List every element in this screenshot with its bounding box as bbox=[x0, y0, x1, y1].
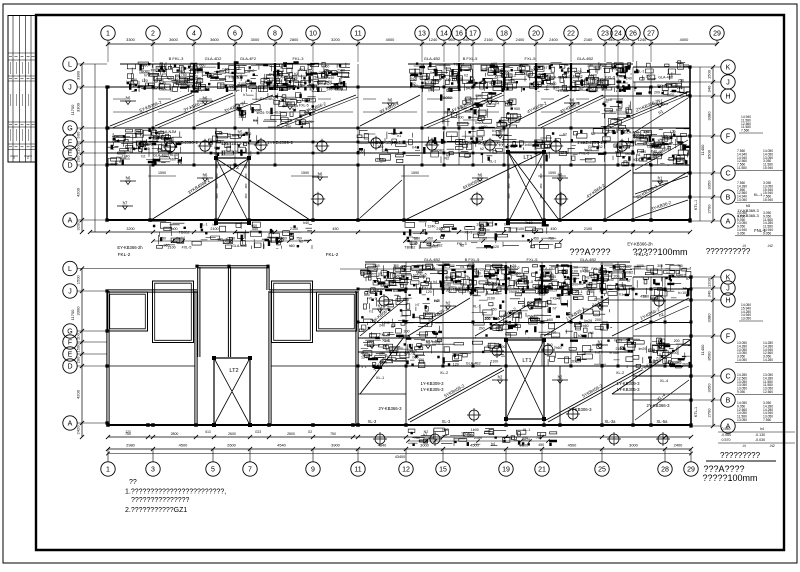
svg-text:1.????????????????????????,: 1.????????????????????????, bbox=[125, 489, 226, 496]
svg-text:2Y-KB366-3: 2Y-KB366-3 bbox=[378, 406, 402, 411]
svg-text:XL-4: XL-4 bbox=[660, 378, 669, 383]
svg-text:750: 750 bbox=[330, 432, 336, 436]
svg-text:XL-3: XL-3 bbox=[442, 419, 451, 424]
svg-text:N2: N2 bbox=[424, 430, 429, 434]
svg-text:h1: h1 bbox=[658, 176, 663, 181]
svg-text:KL-1: KL-1 bbox=[754, 192, 763, 197]
svg-text:b60: b60 bbox=[583, 324, 589, 328]
svg-text:D: D bbox=[67, 163, 72, 170]
svg-text:XL-1: XL-1 bbox=[382, 339, 390, 343]
svg-text:LT2: LT2 bbox=[229, 368, 238, 374]
svg-text:1Y-KB305-3: 1Y-KB305-3 bbox=[420, 387, 444, 392]
svg-text:h2: h2 bbox=[480, 147, 484, 151]
svg-text:9.050: 9.050 bbox=[737, 390, 745, 394]
svg-text:h2: h2 bbox=[464, 73, 468, 77]
svg-text:123: 123 bbox=[125, 430, 131, 434]
svg-text:-N2: -N2 bbox=[769, 444, 774, 448]
svg-text:19: 19 bbox=[502, 467, 510, 474]
svg-text:h6: h6 bbox=[203, 173, 208, 178]
svg-text:17: 17 bbox=[469, 31, 477, 38]
svg-text:1000: 1000 bbox=[372, 264, 380, 268]
svg-text:4200: 4200 bbox=[76, 187, 81, 197]
svg-text:1590: 1590 bbox=[158, 171, 166, 175]
svg-text:340: 340 bbox=[707, 290, 712, 297]
svg-text:240: 240 bbox=[326, 88, 332, 92]
svg-text:B: B bbox=[726, 195, 731, 202]
svg-text:4B0: 4B0 bbox=[539, 163, 543, 168]
svg-text:8500: 8500 bbox=[707, 351, 712, 361]
svg-text:2: 2 bbox=[151, 31, 155, 38]
svg-text:FXL-5: FXL-5 bbox=[525, 56, 537, 61]
svg-text:h4: h4 bbox=[760, 427, 764, 431]
svg-text:3200: 3200 bbox=[331, 37, 340, 42]
svg-text:GLA-4B2: GLA-4B2 bbox=[266, 110, 281, 114]
svg-text:h4: h4 bbox=[495, 102, 499, 106]
svg-text:h2: h2 bbox=[426, 340, 431, 345]
svg-text:G: G bbox=[67, 126, 72, 133]
svg-text:1: 1 bbox=[106, 31, 110, 38]
svg-text:2160: 2160 bbox=[584, 37, 593, 42]
svg-text:h29: h29 bbox=[223, 241, 229, 245]
svg-text:15: 15 bbox=[439, 467, 447, 474]
svg-text:900: 900 bbox=[572, 283, 578, 287]
svg-text:120: 120 bbox=[142, 79, 148, 83]
svg-text:GLA-4B2: GLA-4B2 bbox=[577, 56, 594, 61]
svg-text:L: L bbox=[68, 62, 72, 69]
svg-text:F: F bbox=[726, 334, 730, 341]
svg-text:E: E bbox=[68, 352, 73, 359]
svg-text:-N2: -N2 bbox=[767, 244, 773, 248]
svg-text:B: B bbox=[726, 398, 731, 405]
svg-text:1x60: 1x60 bbox=[443, 283, 451, 287]
svg-text:???????????????: ??????????????? bbox=[131, 497, 190, 504]
svg-text:2400: 2400 bbox=[549, 37, 558, 42]
svg-text:lm29: lm29 bbox=[257, 111, 265, 115]
svg-text:200: 200 bbox=[674, 339, 680, 343]
svg-text:1500: 1500 bbox=[76, 343, 81, 353]
svg-text:D: D bbox=[67, 364, 72, 371]
svg-text:3600: 3600 bbox=[210, 37, 219, 42]
svg-text:7b60: 7b60 bbox=[474, 121, 482, 125]
svg-text:3300: 3300 bbox=[76, 306, 81, 316]
svg-text:GLA-4B2: GLA-4B2 bbox=[424, 56, 441, 61]
svg-text:h7: h7 bbox=[123, 201, 128, 206]
svg-text:900: 900 bbox=[633, 158, 639, 162]
svg-text:29: 29 bbox=[687, 467, 695, 474]
svg-text:3200: 3200 bbox=[76, 221, 81, 231]
svg-text:3300: 3300 bbox=[76, 102, 81, 112]
svg-text:200: 200 bbox=[613, 274, 619, 278]
svg-text:15.940: 15.940 bbox=[763, 166, 773, 170]
svg-text:XL-2: XL-2 bbox=[616, 370, 624, 375]
svg-text:4500: 4500 bbox=[179, 443, 188, 448]
svg-text:3000: 3000 bbox=[629, 443, 638, 448]
svg-text:1590: 1590 bbox=[411, 171, 419, 175]
svg-text:2700: 2700 bbox=[707, 408, 712, 418]
svg-text:29: 29 bbox=[713, 31, 721, 38]
svg-text:200: 200 bbox=[654, 91, 660, 95]
svg-text:h6: h6 bbox=[478, 173, 483, 178]
svg-text:1500: 1500 bbox=[707, 69, 712, 79]
svg-text:2.???????????GZ1: 2.???????????GZ1 bbox=[125, 507, 187, 514]
svg-text:4000: 4000 bbox=[386, 37, 395, 42]
svg-text:GLA-NJM: GLA-NJM bbox=[160, 130, 177, 134]
svg-text:3380: 3380 bbox=[707, 313, 712, 323]
svg-text:2700: 2700 bbox=[707, 204, 712, 214]
svg-text:H: H bbox=[725, 94, 730, 101]
svg-text:900: 900 bbox=[622, 37, 629, 42]
svg-text:A: A bbox=[68, 421, 73, 428]
svg-text:FKL-2: FKL-2 bbox=[326, 252, 339, 257]
svg-text:1Y-KB365-3: 1Y-KB365-3 bbox=[737, 213, 759, 218]
svg-text:2Y-KB366-3: 2Y-KB366-3 bbox=[646, 403, 670, 408]
svg-text:2b0: 2b0 bbox=[571, 359, 577, 363]
svg-text:2b0: 2b0 bbox=[248, 69, 254, 73]
svg-text:???A????: ???A???? bbox=[569, 247, 610, 257]
svg-text:3350: 3350 bbox=[707, 383, 712, 393]
svg-text:3000: 3000 bbox=[251, 37, 260, 42]
svg-text:b60: b60 bbox=[606, 98, 612, 102]
svg-text:4B0: 4B0 bbox=[244, 183, 248, 188]
svg-text:1x60: 1x60 bbox=[524, 143, 532, 147]
svg-text:200: 200 bbox=[458, 115, 464, 119]
svg-text:h1: h1 bbox=[397, 134, 401, 138]
svg-text:1b00: 1b00 bbox=[443, 111, 451, 115]
svg-text:11700: 11700 bbox=[70, 104, 75, 116]
svg-text:H: H bbox=[725, 298, 730, 305]
svg-text:2160: 2160 bbox=[484, 37, 493, 42]
svg-text:750: 750 bbox=[414, 436, 420, 440]
svg-text:14.280: 14.280 bbox=[763, 358, 773, 362]
svg-text:B FXL-5: B FXL-5 bbox=[465, 257, 480, 262]
svg-text:2b0: 2b0 bbox=[479, 327, 485, 331]
svg-text:4B0: 4B0 bbox=[244, 193, 248, 198]
svg-text:FKL-3: FKL-3 bbox=[293, 56, 305, 61]
svg-text:5: 5 bbox=[211, 467, 215, 474]
svg-text:240: 240 bbox=[626, 77, 632, 81]
svg-text:B FXL-5: B FXL-5 bbox=[463, 56, 478, 61]
svg-text:L: L bbox=[68, 266, 72, 273]
svg-text:b60: b60 bbox=[493, 292, 499, 296]
svg-text:13.050: 13.050 bbox=[737, 198, 747, 202]
svg-text:FKL-3: FKL-3 bbox=[379, 333, 389, 337]
svg-text:14: 14 bbox=[440, 31, 448, 38]
svg-text:?????100mm: ?????100mm bbox=[632, 247, 687, 257]
svg-text:h7: h7 bbox=[391, 325, 395, 329]
svg-text:200: 200 bbox=[595, 318, 601, 322]
svg-text:2100: 2100 bbox=[490, 359, 498, 363]
svg-text:A: A bbox=[68, 218, 73, 225]
svg-text:-0.130: -0.130 bbox=[755, 433, 765, 437]
svg-text:F: F bbox=[68, 340, 72, 347]
svg-text:3.050: 3.050 bbox=[737, 231, 745, 235]
svg-text:FKL-3: FKL-3 bbox=[457, 242, 467, 246]
svg-text:2800: 2800 bbox=[171, 432, 179, 436]
svg-text:1240: 1240 bbox=[638, 37, 647, 42]
svg-text:43400: 43400 bbox=[395, 455, 406, 459]
svg-text:340: 340 bbox=[707, 85, 712, 92]
svg-text:2400: 2400 bbox=[516, 37, 525, 42]
svg-text:EYB-1B1B-1: EYB-1B1B-1 bbox=[375, 140, 401, 145]
svg-text:7: 7 bbox=[248, 467, 252, 474]
svg-text:KTL-1: KTL-1 bbox=[694, 407, 698, 417]
svg-text:h2: h2 bbox=[508, 285, 512, 289]
svg-text:18: 18 bbox=[500, 31, 508, 38]
svg-text:300: 300 bbox=[393, 264, 399, 268]
svg-text:2400: 2400 bbox=[674, 443, 683, 448]
svg-text:1Y-KB309-3: 1Y-KB309-3 bbox=[420, 381, 444, 386]
svg-text:C: C bbox=[725, 171, 730, 178]
svg-text:A: A bbox=[726, 219, 731, 226]
svg-text:G23: G23 bbox=[255, 430, 261, 434]
svg-text:TB0B2: TB0B2 bbox=[404, 246, 415, 250]
svg-text:lm29: lm29 bbox=[605, 109, 613, 113]
svg-text:EY-KB366-2h: EY-KB366-2h bbox=[117, 245, 143, 250]
svg-text:1b00: 1b00 bbox=[471, 428, 479, 432]
svg-text:11: 11 bbox=[354, 467, 361, 474]
svg-text:120: 120 bbox=[493, 245, 499, 249]
svg-text:450: 450 bbox=[533, 236, 539, 240]
svg-text:0.540: 0.540 bbox=[722, 427, 731, 431]
svg-text:13: 13 bbox=[418, 31, 426, 38]
svg-text:8: 8 bbox=[273, 31, 277, 38]
svg-text:h7: h7 bbox=[578, 334, 582, 338]
svg-text:200: 200 bbox=[480, 267, 486, 271]
svg-text:4B0: 4B0 bbox=[539, 183, 543, 188]
svg-text:1240: 1240 bbox=[453, 288, 461, 292]
svg-text:FXL-5: FXL-5 bbox=[527, 257, 539, 262]
svg-text:7.560: 7.560 bbox=[741, 129, 749, 133]
svg-text:450: 450 bbox=[538, 443, 544, 447]
svg-text:h2: h2 bbox=[498, 375, 503, 380]
svg-text:EY-KB366-2h: EY-KB366-2h bbox=[627, 242, 653, 247]
svg-text:h7: h7 bbox=[144, 74, 148, 78]
svg-text:22: 22 bbox=[567, 31, 575, 38]
svg-text:1590: 1590 bbox=[548, 171, 556, 175]
svg-text:b60: b60 bbox=[616, 108, 622, 112]
svg-text:613: 613 bbox=[205, 430, 211, 434]
svg-text:940: 940 bbox=[608, 37, 615, 42]
svg-text:h1: h1 bbox=[619, 293, 623, 297]
svg-text:E: E bbox=[68, 151, 73, 158]
svg-text:12.560: 12.560 bbox=[763, 390, 773, 394]
svg-text:J: J bbox=[68, 85, 72, 92]
svg-text:27: 27 bbox=[647, 31, 655, 38]
svg-text:1YKB4599-2: 1YKB4599-2 bbox=[267, 140, 293, 145]
svg-text:h7: h7 bbox=[243, 93, 247, 97]
svg-text:XL-1: XL-1 bbox=[376, 375, 384, 380]
svg-text:25: 25 bbox=[598, 467, 606, 474]
svg-text:2800: 2800 bbox=[287, 432, 295, 436]
svg-text:b40: b40 bbox=[303, 221, 309, 225]
svg-text:FXL-5: FXL-5 bbox=[182, 245, 192, 249]
svg-text:3380: 3380 bbox=[707, 111, 712, 121]
svg-text:h6: h6 bbox=[126, 96, 131, 101]
svg-text:450: 450 bbox=[640, 295, 646, 299]
svg-text:1240: 1240 bbox=[122, 154, 130, 158]
svg-text:2100: 2100 bbox=[516, 227, 524, 231]
svg-text:-0.060: -0.060 bbox=[721, 433, 731, 437]
svg-text:12: 12 bbox=[402, 467, 410, 474]
svg-text:b00: b00 bbox=[76, 131, 81, 138]
svg-text:h1: h1 bbox=[492, 129, 496, 133]
svg-text:??: ?? bbox=[129, 479, 137, 486]
svg-text:450: 450 bbox=[522, 436, 528, 440]
svg-text:h6: h6 bbox=[126, 176, 131, 181]
svg-text:1500: 1500 bbox=[76, 275, 81, 285]
svg-text:26: 26 bbox=[629, 31, 637, 38]
svg-text:??????????: ?????????? bbox=[706, 247, 751, 256]
svg-text:24: 24 bbox=[614, 31, 622, 38]
svg-text:h60: h60 bbox=[289, 244, 295, 248]
svg-text:lm29: lm29 bbox=[639, 347, 647, 351]
svg-text:900: 900 bbox=[514, 107, 520, 111]
svg-text:h=100: h=100 bbox=[580, 270, 590, 274]
svg-text:750: 750 bbox=[548, 236, 554, 240]
svg-text:J: J bbox=[726, 80, 730, 87]
svg-text:4: 4 bbox=[192, 31, 196, 38]
svg-text:300: 300 bbox=[404, 330, 410, 334]
svg-text:GLA-4F2: GLA-4F2 bbox=[240, 56, 257, 61]
svg-text:2980: 2980 bbox=[126, 443, 135, 448]
svg-text:3200: 3200 bbox=[126, 227, 134, 231]
svg-text:GLA-4D2: GLA-4D2 bbox=[205, 56, 222, 61]
svg-text:3600: 3600 bbox=[169, 37, 178, 42]
svg-text:3900: 3900 bbox=[331, 443, 340, 448]
svg-text:B FKL-3: B FKL-3 bbox=[169, 56, 184, 61]
svg-text:450: 450 bbox=[428, 436, 434, 440]
svg-text:XL-2: XL-2 bbox=[440, 370, 448, 375]
svg-text:b40: b40 bbox=[434, 299, 440, 303]
svg-text:940: 940 bbox=[463, 37, 470, 42]
svg-text:2100: 2100 bbox=[474, 436, 482, 440]
svg-text:11400: 11400 bbox=[700, 144, 705, 156]
svg-text:XL-1: XL-1 bbox=[473, 305, 481, 309]
svg-text:?????100mm: ?????100mm bbox=[702, 473, 757, 483]
svg-text:7b60: 7b60 bbox=[554, 346, 562, 350]
svg-text:3: 3 bbox=[151, 467, 155, 474]
svg-text:4500: 4500 bbox=[568, 443, 577, 448]
svg-text:FKL-2: FKL-2 bbox=[118, 252, 131, 257]
svg-text:450: 450 bbox=[550, 227, 556, 231]
svg-text:LT1: LT1 bbox=[522, 358, 531, 364]
svg-text:GLA-4B2: GLA-4B2 bbox=[424, 257, 441, 262]
svg-text:GLA-4B2: GLA-4B2 bbox=[658, 76, 673, 80]
svg-text:1Y-KB305-3: 1Y-KB305-3 bbox=[616, 387, 640, 392]
svg-text:?????????: ????????? bbox=[720, 451, 761, 460]
svg-text:C: C bbox=[725, 374, 730, 381]
svg-text:J: J bbox=[726, 286, 730, 293]
svg-text:F: F bbox=[726, 134, 730, 141]
svg-text:10: 10 bbox=[309, 31, 317, 38]
svg-text:2100: 2100 bbox=[210, 227, 218, 231]
svg-text:4500: 4500 bbox=[470, 443, 479, 448]
svg-text:h29: h29 bbox=[326, 80, 332, 84]
svg-text:200: 200 bbox=[76, 155, 81, 162]
svg-text:h2: h2 bbox=[446, 301, 451, 306]
svg-text:XL-3a: XL-3a bbox=[605, 419, 617, 424]
svg-text:TB0B2: TB0B2 bbox=[508, 290, 519, 294]
svg-text:7.560: 7.560 bbox=[763, 418, 771, 422]
svg-text:4000: 4000 bbox=[680, 37, 689, 42]
svg-text:0.570: 0.570 bbox=[722, 438, 731, 442]
svg-text:h6: h6 bbox=[388, 98, 393, 103]
svg-text:3380: 3380 bbox=[76, 70, 81, 80]
svg-text:2100: 2100 bbox=[479, 236, 487, 240]
svg-text:120: 120 bbox=[426, 290, 432, 294]
svg-text:1590: 1590 bbox=[301, 171, 309, 175]
svg-text:h4: h4 bbox=[412, 146, 416, 150]
svg-text:XL-1: XL-1 bbox=[465, 231, 473, 235]
svg-text:h6: h6 bbox=[570, 98, 575, 103]
svg-text:h6: h6 bbox=[288, 101, 293, 106]
svg-text:13.050: 13.050 bbox=[741, 317, 751, 321]
svg-text:b60: b60 bbox=[547, 318, 553, 322]
svg-text:15.940: 15.940 bbox=[763, 198, 773, 202]
svg-text:2b0: 2b0 bbox=[593, 67, 599, 71]
svg-text:20: 20 bbox=[532, 31, 540, 38]
svg-text:h60: h60 bbox=[323, 64, 329, 68]
svg-text:G2: G2 bbox=[308, 430, 312, 434]
svg-text:2600: 2600 bbox=[227, 443, 236, 448]
svg-text:h7: h7 bbox=[553, 307, 557, 311]
svg-text:120: 120 bbox=[670, 130, 676, 134]
svg-text:28: 28 bbox=[661, 467, 669, 474]
svg-text:h7: h7 bbox=[416, 303, 420, 307]
svg-text:h60: h60 bbox=[475, 272, 481, 276]
svg-text:4200: 4200 bbox=[76, 389, 81, 399]
svg-text:2420: 2420 bbox=[76, 425, 81, 435]
svg-text:500: 500 bbox=[449, 264, 455, 268]
svg-text:K: K bbox=[726, 65, 731, 72]
svg-text:J: J bbox=[68, 289, 72, 296]
svg-text:3300: 3300 bbox=[126, 37, 135, 42]
svg-text:450: 450 bbox=[332, 227, 338, 231]
svg-text:900: 900 bbox=[475, 94, 481, 98]
svg-text:2100: 2100 bbox=[584, 227, 592, 231]
svg-text:2600: 2600 bbox=[228, 432, 236, 436]
svg-text:2b0: 2b0 bbox=[76, 332, 81, 339]
svg-text:1240: 1240 bbox=[429, 37, 438, 42]
svg-text:1YKB4599-2: 1YKB4599-2 bbox=[577, 140, 603, 145]
svg-text:450: 450 bbox=[427, 236, 433, 240]
svg-text:FKL-3: FKL-3 bbox=[168, 153, 178, 157]
svg-text:960: 960 bbox=[448, 37, 455, 42]
svg-text:N2: N2 bbox=[444, 156, 449, 160]
svg-text:lm29: lm29 bbox=[599, 63, 607, 67]
svg-text:-0.030: -0.030 bbox=[755, 438, 765, 442]
svg-text:h2: h2 bbox=[563, 133, 567, 137]
svg-text:h1: h1 bbox=[369, 310, 373, 314]
svg-text:N2: N2 bbox=[585, 276, 590, 280]
svg-text:11.580: 11.580 bbox=[737, 166, 747, 170]
svg-text:h1: h1 bbox=[637, 153, 641, 157]
svg-text:GLA-4B2: GLA-4B2 bbox=[580, 257, 597, 262]
svg-text:h2: h2 bbox=[141, 154, 145, 158]
svg-text:200: 200 bbox=[547, 83, 553, 87]
svg-text:h6: h6 bbox=[203, 96, 208, 101]
svg-text:-N: -N bbox=[742, 444, 746, 448]
svg-text:200: 200 bbox=[76, 356, 81, 363]
svg-text:14.050: 14.050 bbox=[737, 358, 747, 362]
svg-text:XL-3: XL-3 bbox=[368, 419, 377, 424]
svg-text:h5: h5 bbox=[238, 130, 243, 135]
svg-text:2100: 2100 bbox=[487, 296, 495, 300]
svg-text:8500: 8500 bbox=[707, 149, 712, 159]
svg-text:11: 11 bbox=[354, 31, 361, 38]
svg-text:11400: 11400 bbox=[700, 344, 705, 356]
svg-text:2800: 2800 bbox=[290, 37, 299, 42]
